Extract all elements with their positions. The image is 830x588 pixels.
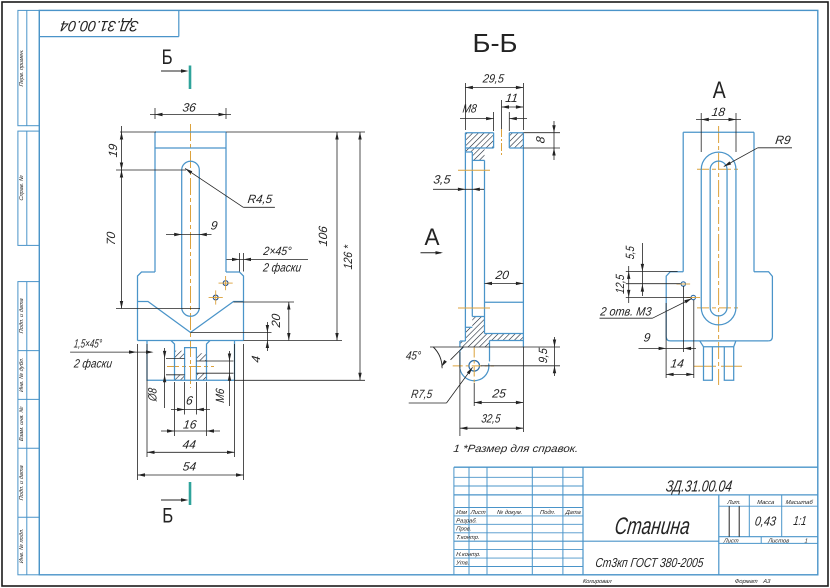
front view hatch - hole section right bottom [196, 373, 206, 380]
svg-text:1,5×45°: 1,5×45° [73, 336, 103, 350]
section slot bottom edge [472, 316, 484, 318]
dimension 106 [226, 131, 365, 133]
dimension 12,5 [628, 266, 630, 303]
view A slot inner R4,5 [709, 170, 711, 308]
title block grid [453, 467, 455, 575]
section groove R7,5 [460, 364, 489, 381]
section centerlines [453, 365, 494, 367]
svg-text:Листов: Листов [767, 538, 790, 544]
svg-text:Изм: Изм [456, 510, 467, 516]
dimension 29,5 [464, 83, 466, 130]
view A centerline slot bottom [697, 307, 740, 309]
leader R9 [724, 148, 758, 167]
dimension 36 [154, 108, 156, 119]
dimension 5,5 [641, 243, 643, 296]
dimension 44 [146, 344, 148, 457]
front view chamfer step 2x45 [138, 272, 156, 341]
view A slot outer R9 [700, 170, 702, 308]
svg-text:18: 18 [711, 105, 726, 119]
svg-text:Н.контр.: Н.контр. [456, 552, 481, 558]
dimension diameter 8 [164, 348, 166, 408]
svg-text:Лист: Лист [722, 538, 739, 544]
svg-text:54: 54 [182, 460, 197, 474]
section wall verticals [464, 133, 466, 341]
section band top edge [485, 333, 524, 335]
dimension 2x45 chamfer [239, 253, 241, 272]
svg-text:Разраб.: Разраб. [456, 518, 478, 524]
svg-text:Лит.: Лит. [726, 500, 741, 506]
svg-text:20: 20 [269, 313, 283, 329]
front view centerline vertical [190, 124, 192, 388]
section base ledge [460, 340, 466, 342]
svg-text:Станина: Станина [613, 513, 691, 540]
svg-text:ЗД.31.00.04: ЗД.31.00.04 [59, 17, 139, 34]
front view base recess edges with chamfers [171, 341, 175, 381]
dimension 9,5 [481, 365, 561, 367]
svg-text:ЗД.31.00.04: ЗД.31.00.04 [665, 477, 733, 495]
M3 hole lower in front view [213, 295, 218, 300]
section interior shoulder line [485, 301, 524, 303]
svg-text:Взам. инв. №: Взам. инв. № [19, 406, 25, 441]
section base chamfer 45 [460, 347, 463, 350]
svg-text:14: 14 [670, 356, 685, 370]
svg-text:2×45°: 2×45° [262, 244, 293, 258]
svg-text:1:1: 1:1 [793, 513, 808, 528]
front view slot [181, 170, 183, 308]
svg-text:Формат: Формат [734, 579, 758, 585]
section mark B top [189, 66, 192, 90]
Lit subcell dividers [728, 506, 730, 537]
svg-text:16: 16 [182, 418, 197, 432]
front view centerline cross hole [167, 366, 214, 368]
svg-text:Подп.: Подп. [540, 510, 556, 516]
svg-text:Инв. № подл.: Инв. № подл. [19, 528, 25, 563]
svg-text:М6: М6 [213, 387, 227, 403]
svg-text:А: А [425, 224, 440, 251]
dimension 45 degrees [430, 346, 560, 348]
svg-text:0,43: 0,43 [754, 513, 777, 528]
view A outline [683, 131, 754, 133]
dimension 3,5 [433, 188, 484, 190]
view A centerline vertical [718, 126, 720, 385]
dimension 11 [501, 100, 503, 129]
svg-text:29,5: 29,5 [481, 71, 505, 85]
top-left designation strip [39, 36, 179, 38]
dimension 9 slot width [166, 234, 212, 236]
section flange outline [465, 132, 523, 134]
section rear foot edge [489, 341, 491, 362]
extension line slot bottom [116, 308, 200, 310]
front view column outline [155, 131, 226, 133]
dimension M6 [229, 351, 231, 406]
section under-flange steps [465, 151, 472, 153]
svg-text:Копировал: Копировал [582, 579, 612, 585]
dimension 4 [191, 332, 272, 334]
dimension 6 [184, 382, 186, 415]
svg-text:44: 44 [182, 438, 197, 452]
svg-text:Утв.: Утв. [455, 561, 470, 567]
svg-text:R4,5: R4,5 [247, 192, 274, 206]
svg-text:9,5: 9,5 [536, 347, 550, 364]
section hatch - flange left and wall top [465, 133, 493, 161]
svg-text:Подп. и дата: Подп. и дата [19, 298, 25, 334]
svg-text:Б: Б [162, 46, 173, 69]
front view central 6mm slot [185, 348, 197, 381]
svg-text:1 *Размер для справок.: 1 *Размер для справок. [453, 443, 579, 455]
svg-text:Т.контр.: Т.контр. [456, 535, 480, 541]
view A centerline slot top [697, 168, 740, 170]
svg-text:№ докум.: № докум. [496, 510, 522, 516]
view A M3 hole 2 [691, 295, 695, 299]
front view block bottom edge [138, 340, 244, 342]
dimension 25 [473, 383, 475, 406]
view A bottom edge [671, 340, 769, 342]
dimension 20 section [485, 282, 524, 284]
svg-text:Пров.: Пров. [456, 527, 472, 533]
extension line slot top [116, 169, 186, 171]
dimension 14 view A [693, 300, 695, 378]
dimension M8 [493, 112, 495, 131]
section step edge [465, 326, 472, 328]
svg-text:36: 36 [182, 101, 197, 115]
dimension 9 view A [665, 303, 667, 378]
svg-text:Инв. № дубл.: Инв. № дубл. [19, 357, 25, 392]
svg-text:Ø8: Ø8 [146, 387, 160, 403]
svg-text:11: 11 [505, 91, 519, 105]
front view base outline [147, 341, 235, 381]
view A centerline foot hole [694, 365, 716, 367]
svg-text:Б-Б: Б-Б [473, 30, 518, 58]
svg-text:R9: R9 [774, 133, 791, 147]
left margin column - Perv primen cell [18, 10, 39, 125]
svg-text:45°: 45° [405, 349, 422, 363]
view A M3 hole 1 [681, 282, 685, 286]
svg-text:70: 70 [104, 231, 118, 246]
svg-text:R7,5: R7,5 [410, 387, 433, 401]
front view hatch - hole section left bottom [175, 375, 185, 381]
svg-text:Б: Б [162, 505, 173, 528]
svg-text:Перв. примен.: Перв. примен. [19, 49, 25, 87]
svg-text:126 *: 126 * [341, 244, 355, 270]
dimension 16 [174, 382, 176, 436]
svg-text:Лист: Лист [469, 510, 486, 516]
section mark B bottom [189, 482, 192, 505]
front view top inner edge [155, 147, 226, 149]
dimension 126 [235, 379, 366, 381]
dimension 19 [120, 131, 156, 133]
leader R7,5 [447, 367, 473, 403]
svg-text:32,5: 32,5 [481, 412, 502, 426]
dimension 54 [137, 344, 139, 480]
dimension 20 V depth [234, 301, 295, 303]
svg-text:106: 106 [316, 225, 330, 247]
dimension 18 [700, 113, 702, 152]
front view hatch - hole section left top [175, 351, 185, 359]
M3 hole upper in front view [223, 281, 228, 286]
section hatch - flange right [509, 133, 523, 148]
leader R4,5 [185, 168, 243, 207]
front view hatch - hole section right top [196, 353, 206, 361]
section hatch - bottom assembly [460, 317, 524, 348]
left margin lower cells [18, 282, 39, 575]
left margin column - Sprav No cell [18, 131, 39, 245]
svg-text:2 фаски: 2 фаски [72, 357, 113, 371]
svg-text:Ст3кп ГОСТ 380-2005: Ст3кп ГОСТ 380-2005 [595, 555, 705, 570]
svg-text:Масса: Масса [757, 500, 776, 506]
svg-text:12,5: 12,5 [613, 273, 627, 294]
dimension 8 flange height [523, 132, 560, 134]
svg-text:А3: А3 [762, 579, 772, 585]
dimension 32,5 [459, 352, 461, 436]
front view hole edge lines [166, 357, 185, 359]
section band bottom edge [490, 340, 524, 342]
svg-text:3,5: 3,5 [433, 173, 452, 187]
svg-text:20: 20 [494, 268, 510, 282]
svg-text:25: 25 [491, 386, 507, 400]
svg-text:2 отв. М3: 2 отв. М3 [599, 305, 653, 319]
svg-text:А: А [713, 77, 726, 104]
view A rear foot [700, 341, 736, 347]
extension lines M3 dims [626, 270, 678, 272]
front view V-groove [138, 302, 244, 333]
svg-text:Подп. и дата: Подп. и дата [19, 465, 25, 501]
dimension 70 [121, 170, 123, 309]
svg-text:5,5: 5,5 [623, 245, 637, 260]
svg-text:19: 19 [106, 143, 120, 158]
svg-text:Справ. №: Справ. № [19, 175, 25, 201]
svg-text:2 фаски: 2 фаски [262, 260, 303, 274]
svg-text:Дата: Дата [564, 510, 582, 516]
section M6 hole circle [469, 361, 480, 372]
svg-text:Масштаб: Масштаб [785, 500, 814, 506]
svg-text:М8: М8 [462, 102, 478, 116]
